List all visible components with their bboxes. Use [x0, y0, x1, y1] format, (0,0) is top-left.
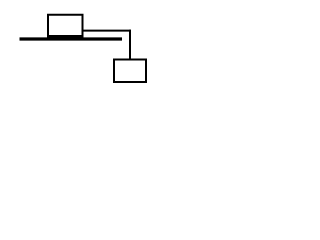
string vertical segment — [129, 30, 131, 60]
block A (on table) — [47, 15, 84, 37]
block B (hanging) — [114, 60, 146, 83]
string horizontal segment — [83, 30, 131, 32]
table surface line — [20, 37, 123, 40]
